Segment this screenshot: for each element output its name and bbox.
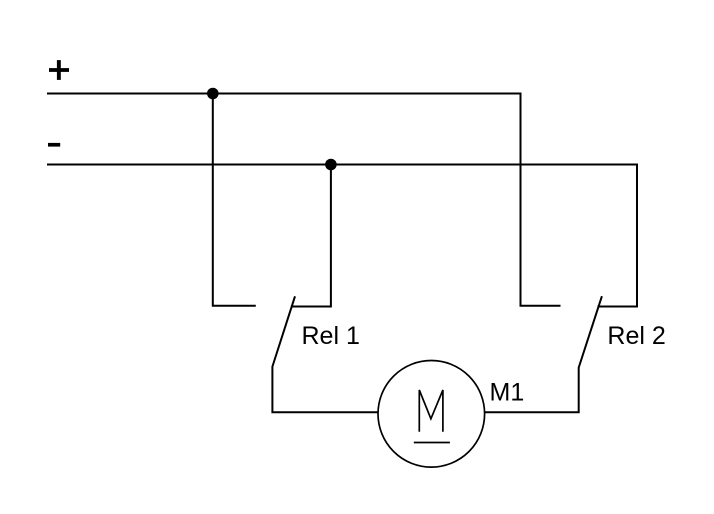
wire negative rail to Rel 2 NC contact: [47, 165, 637, 307]
wire positive rail to Rel 2 NO contact: [47, 94, 561, 306]
junction B (dot on negative rail): [325, 159, 337, 171]
wire from junction B down to Rel 1 NC contact: [292, 165, 331, 307]
node - (negative supply label): [48, 143, 60, 147]
motor M1 letter M with underline: [414, 390, 450, 443]
switch Rel 1 blade and wire to motor M1: [272, 296, 378, 412]
wire from junction A down to Rel 1 NO contact: [213, 94, 256, 306]
junction A (dot on positive rail): [207, 88, 219, 100]
svg-text:Rel 1: Rel 1: [302, 322, 360, 350]
switch Rel 2 blade and wire to motor M1: [485, 296, 602, 412]
node + (positive supply label): [49, 60, 69, 80]
motor M1 circle: [378, 361, 485, 468]
svg-text:M1: M1: [490, 379, 525, 407]
svg-text:Rel 2: Rel 2: [607, 322, 665, 350]
